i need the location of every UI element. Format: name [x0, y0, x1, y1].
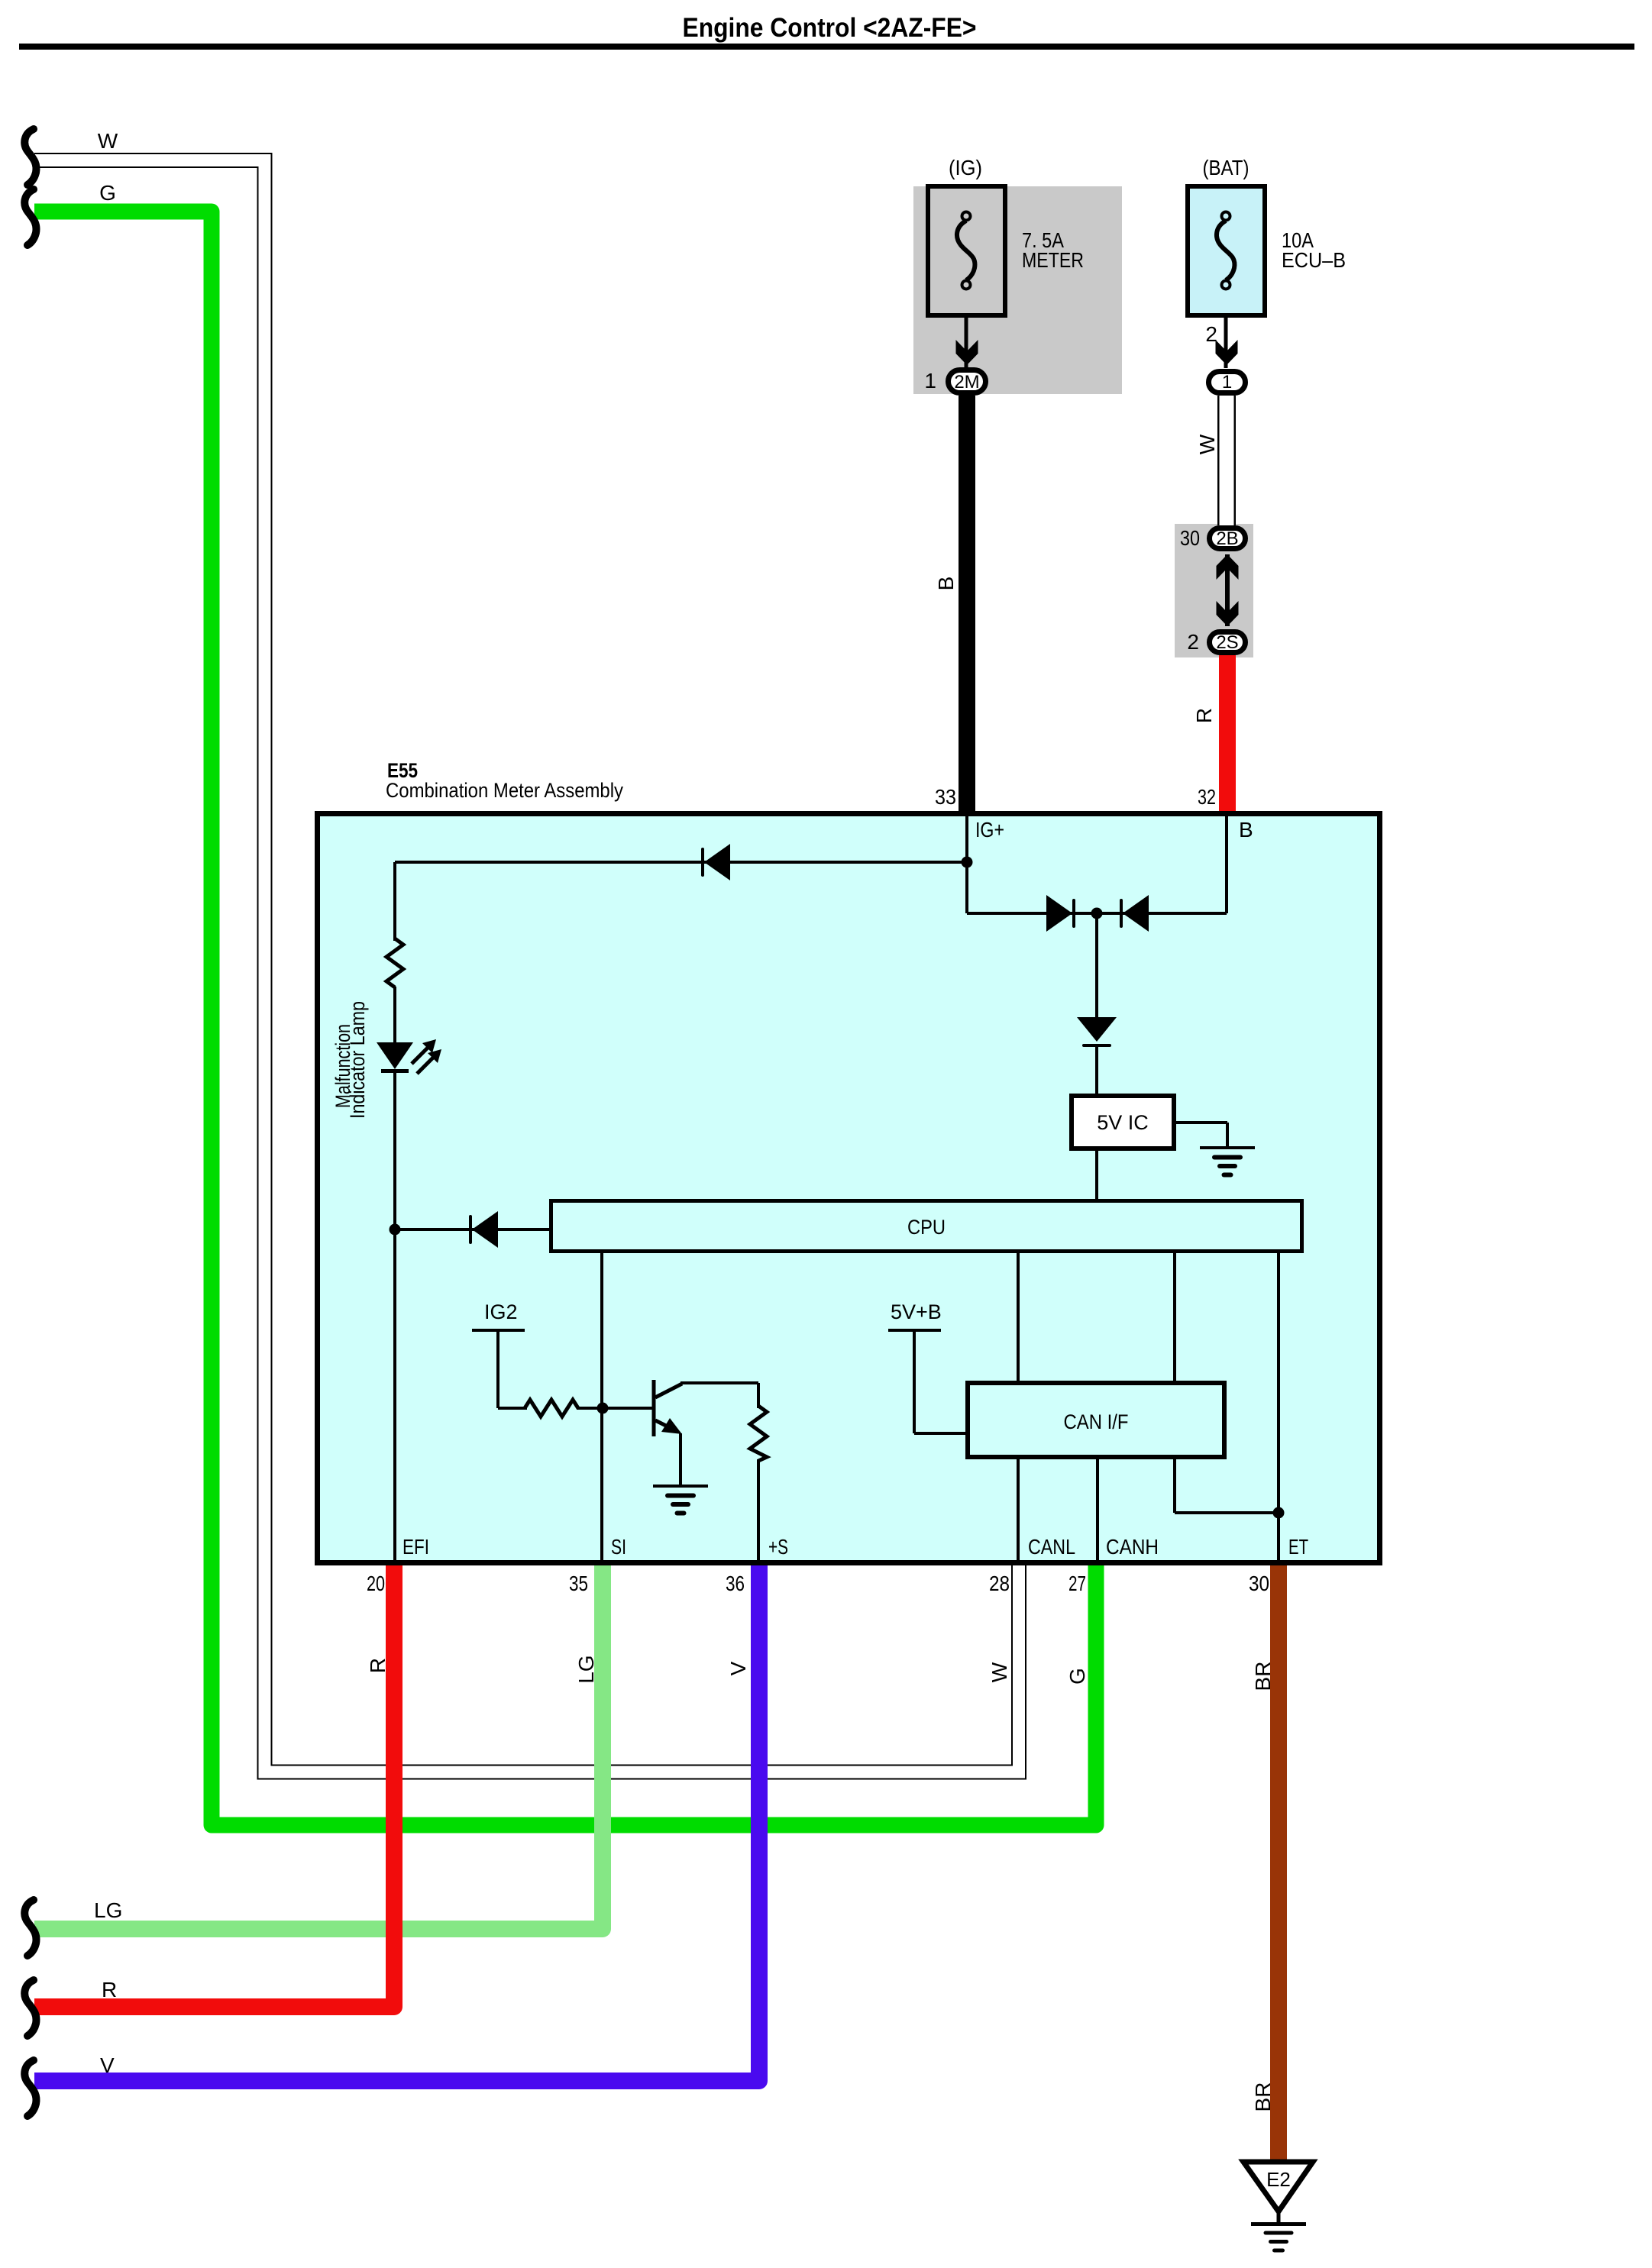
svg-text:2: 2 [1205, 322, 1217, 346]
svg-text:1: 1 [1222, 372, 1232, 393]
svg-text:V: V [726, 1661, 750, 1675]
svg-text:30: 30 [1249, 1572, 1269, 1595]
svg-text:G: G [99, 181, 116, 205]
svg-text:CPU: CPU [907, 1216, 946, 1239]
svg-text:28: 28 [989, 1572, 1010, 1595]
svg-text:W: W [988, 1662, 1011, 1682]
svg-text:30: 30 [1180, 526, 1200, 550]
svg-text:ECU–B: ECU–B [1282, 248, 1346, 272]
svg-text:Combination Meter Assembly: Combination Meter Assembly [386, 779, 623, 802]
svg-text:35: 35 [569, 1572, 588, 1595]
svg-text:BR: BR [1251, 1662, 1275, 1691]
svg-text:CANH: CANH [1106, 1535, 1159, 1559]
svg-text:W: W [1195, 434, 1219, 454]
svg-text:SI: SI [611, 1535, 626, 1559]
svg-text:5V IC: 5V IC [1097, 1111, 1149, 1134]
svg-text:1: 1 [924, 369, 936, 393]
svg-text:CAN I/F: CAN I/F [1064, 1410, 1129, 1433]
svg-text:R: R [1192, 708, 1216, 723]
svg-text:(IG): (IG) [949, 156, 982, 179]
svg-text:EFI: EFI [402, 1535, 429, 1559]
svg-text:R: R [366, 1658, 390, 1673]
svg-text:Indicator Lamp: Indicator Lamp [346, 1001, 369, 1119]
svg-text:G: G [1065, 1668, 1089, 1685]
svg-text:B: B [1239, 818, 1253, 842]
svg-text:(BAT): (BAT) [1203, 156, 1250, 179]
svg-text:LG: LG [574, 1655, 598, 1683]
svg-text:B: B [934, 577, 958, 591]
svg-text:METER: METER [1022, 248, 1084, 272]
svg-text:IG+: IG+ [975, 818, 1004, 842]
svg-text:20: 20 [367, 1572, 385, 1595]
svg-text:R: R [102, 1978, 117, 2001]
svg-text:33: 33 [935, 785, 956, 809]
svg-text:2B: 2B [1216, 528, 1238, 549]
svg-text:2S: 2S [1216, 632, 1238, 653]
svg-text:5V+B: 5V+B [891, 1300, 942, 1323]
svg-text:2: 2 [1187, 630, 1199, 654]
svg-text:IG2: IG2 [484, 1300, 518, 1323]
svg-text:Engine Control <2AZ-FE>: Engine Control <2AZ-FE> [683, 13, 977, 43]
svg-text:BR: BR [1251, 2082, 1275, 2112]
svg-text:+S: +S [768, 1535, 788, 1559]
svg-text:CANL: CANL [1028, 1535, 1075, 1559]
svg-text:E2: E2 [1266, 2168, 1291, 2191]
svg-text:LG: LG [94, 1898, 122, 1922]
svg-text:W: W [98, 129, 118, 153]
svg-text:2M: 2M [954, 372, 979, 393]
svg-text:V: V [100, 2053, 115, 2077]
svg-text:32: 32 [1198, 785, 1216, 809]
svg-text:27: 27 [1068, 1572, 1086, 1595]
svg-text:ET: ET [1288, 1535, 1308, 1559]
svg-text:36: 36 [726, 1572, 745, 1595]
